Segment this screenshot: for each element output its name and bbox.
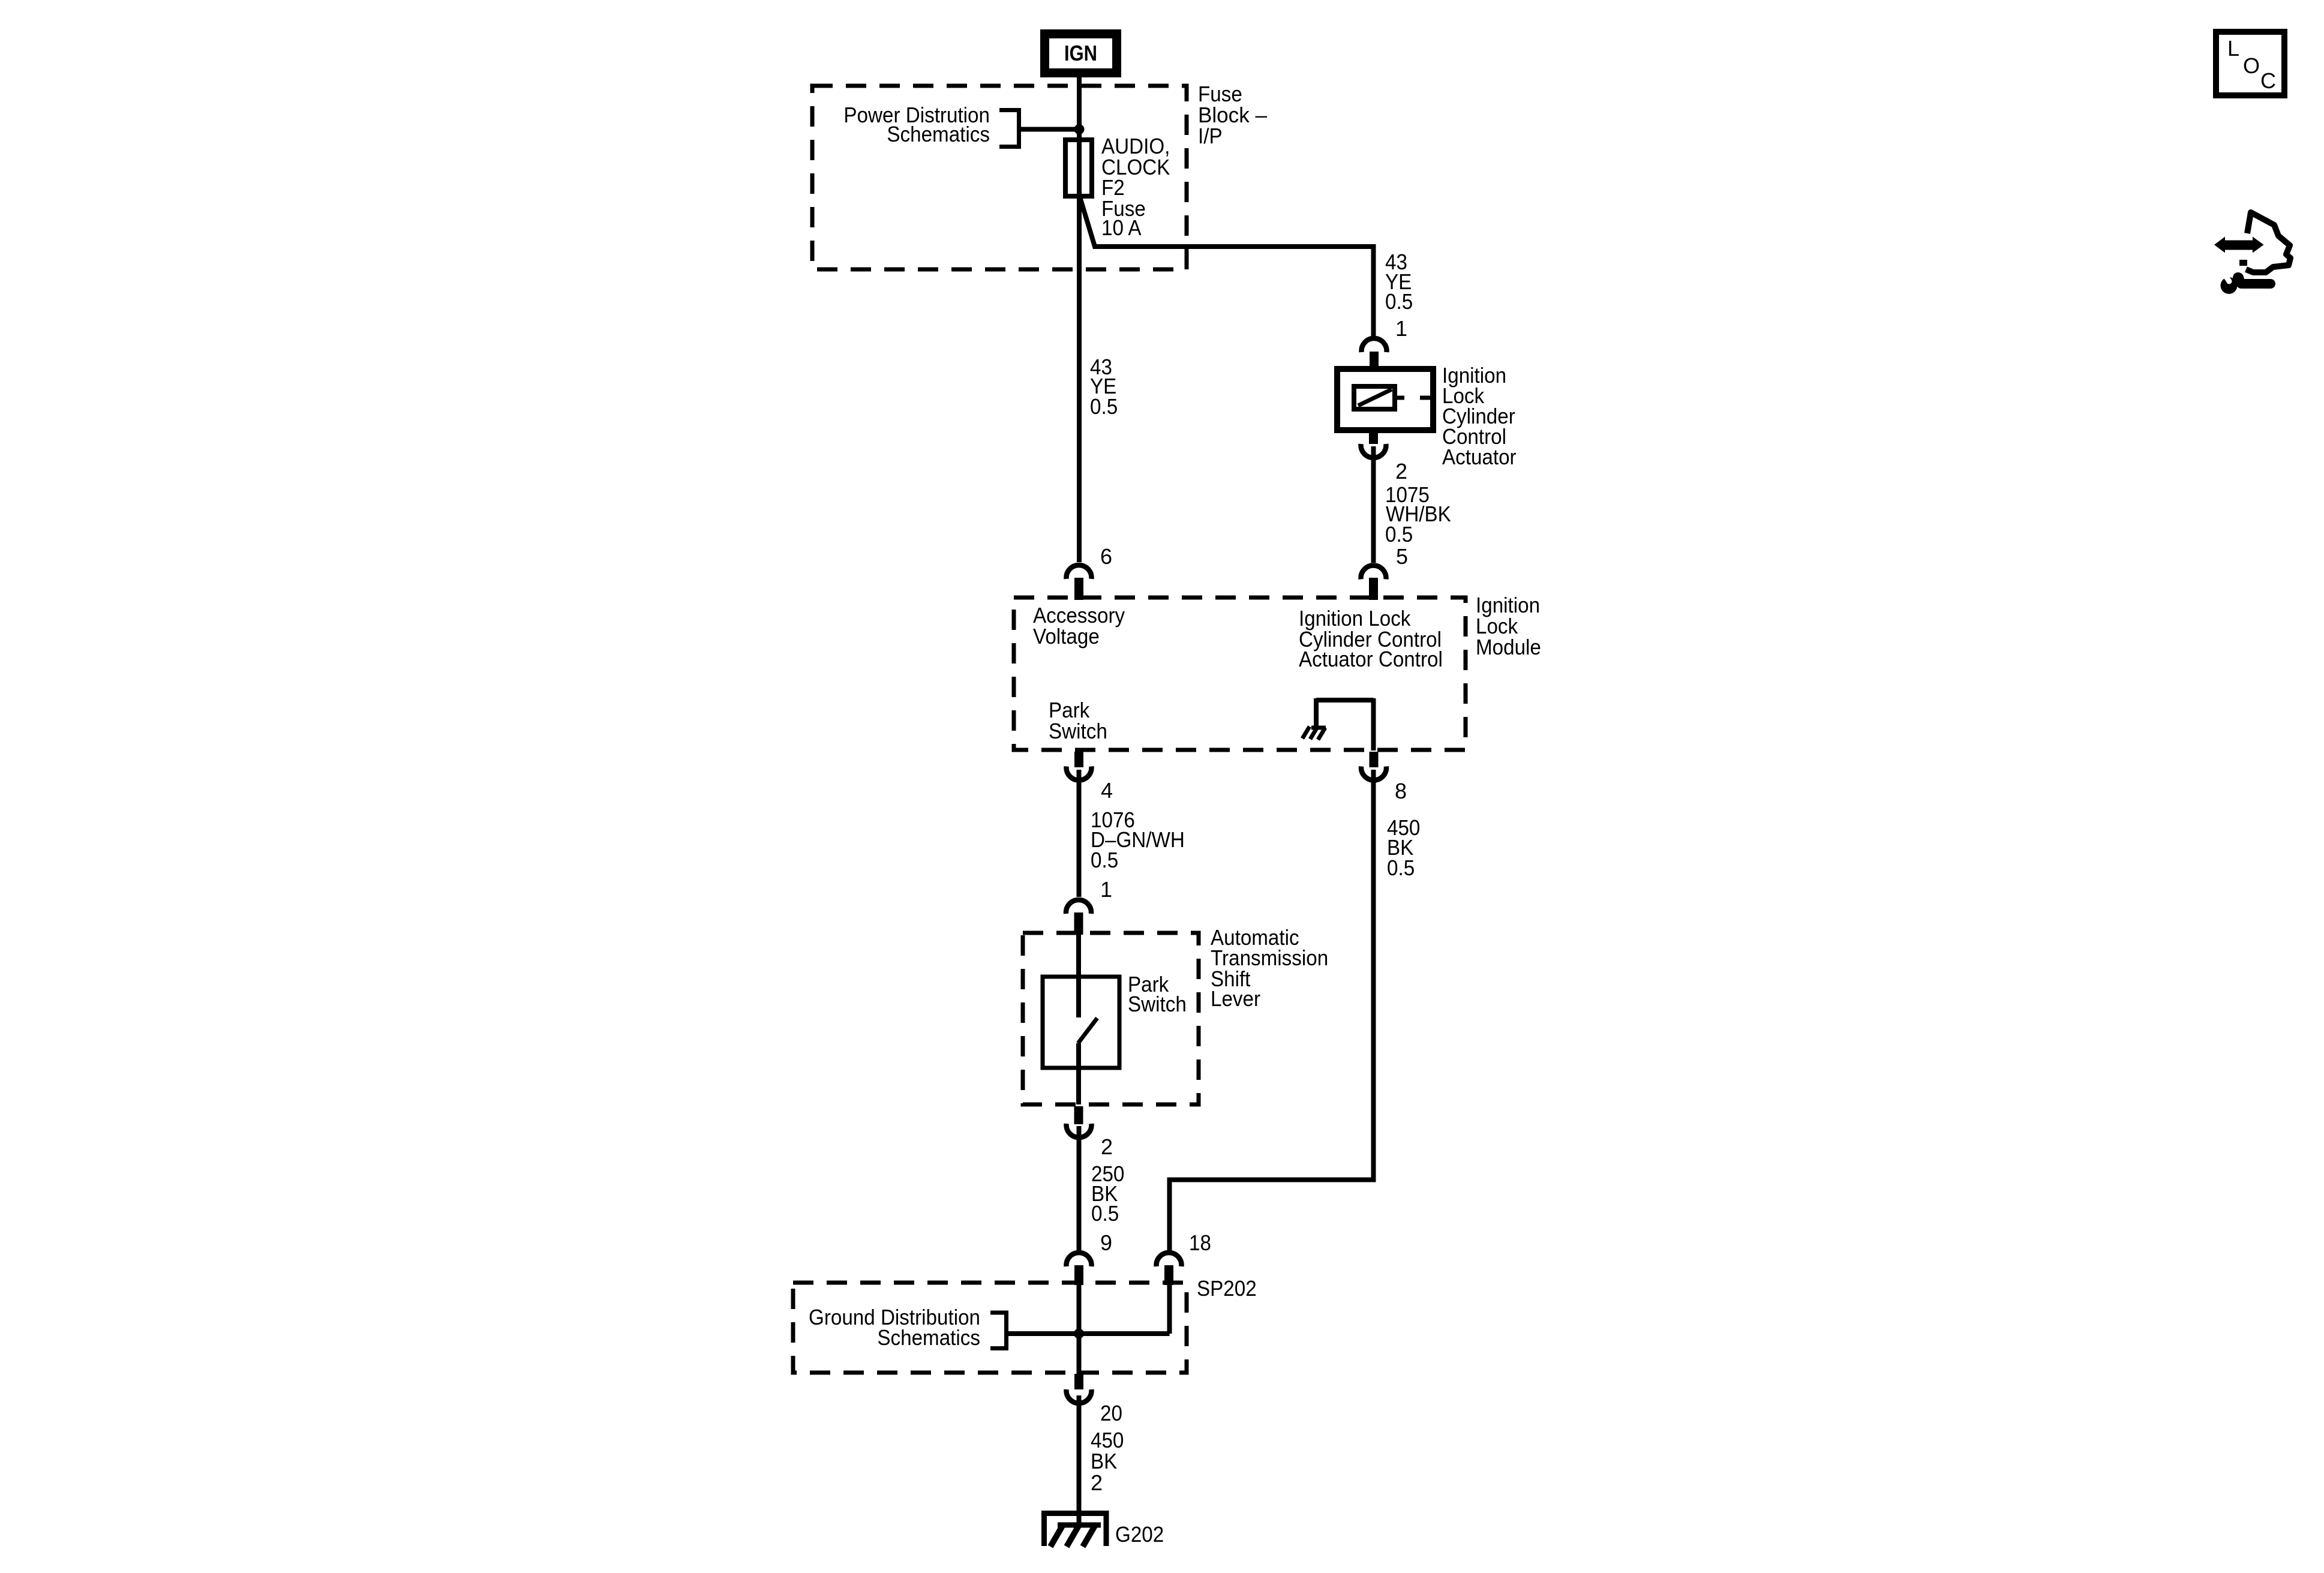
automatic transmission shift lever dashed box xyxy=(1023,933,1199,1104)
ground G202 xyxy=(1044,1514,1107,1547)
label 43 YE 0.5 left wire xyxy=(1090,355,1118,419)
actuator contact segments xyxy=(1395,396,1404,400)
module internal wire to ground xyxy=(1316,698,1374,703)
connector pin 1 xyxy=(1362,338,1387,352)
connector pin 8 xyxy=(1370,752,1379,767)
label AUDIO CLOCK F2 Fuse 10 A xyxy=(1101,134,1170,240)
bracket to Ground Distribution xyxy=(990,1313,1007,1349)
svg-text:0.5: 0.5 xyxy=(1090,394,1118,419)
connector pin 2 xyxy=(1369,428,1378,444)
svg-text:2: 2 xyxy=(1091,1470,1103,1495)
diagnostic icon: head outline xyxy=(2246,212,2290,272)
label 450 BK 0.5 xyxy=(1387,815,1420,880)
diagnostic icon: wrench xyxy=(2221,269,2271,294)
svg-text:8: 8 xyxy=(1395,779,1407,803)
connector pin 20 xyxy=(1074,1374,1083,1389)
label 450 BK 2 xyxy=(1091,1428,1124,1495)
wire IGN to fuse xyxy=(1077,76,1082,562)
label Power Distrution Schematics xyxy=(843,103,990,146)
svg-text:20: 20 xyxy=(1100,1401,1122,1425)
svg-text:Switch: Switch xyxy=(1049,719,1107,743)
svg-text:Schematics: Schematics xyxy=(887,122,990,146)
svg-text:18: 18 xyxy=(1189,1230,1211,1255)
wire pin 2 to pin 5 xyxy=(1371,446,1376,563)
connector pin 6 xyxy=(1067,565,1092,579)
svg-text:1: 1 xyxy=(1100,877,1112,902)
svg-text:5: 5 xyxy=(1396,544,1408,569)
label Fuse Block - I/P xyxy=(1198,82,1267,148)
svg-text:Actuator Control: Actuator Control xyxy=(1299,647,1443,671)
label 250 BK 0.5 xyxy=(1091,1161,1124,1226)
connector pin 9 xyxy=(1067,1253,1092,1266)
wire branch fuse to actuator pin 1 xyxy=(1079,195,1374,337)
connector ATSL pin 1 xyxy=(1066,900,1091,914)
park switch blade xyxy=(1078,1018,1097,1043)
park switch contact wires xyxy=(1076,935,1081,1017)
diagnostic icon: double arrow xyxy=(2214,237,2264,253)
svg-text:0.5: 0.5 xyxy=(1091,848,1118,872)
ground distribution dashed box xyxy=(793,1283,1187,1373)
label Ground Distribution Schematics xyxy=(809,1305,980,1350)
fuse block I/P dashed box xyxy=(812,86,1187,269)
svg-text:1: 1 xyxy=(1395,316,1407,341)
svg-text:4: 4 xyxy=(1101,778,1113,803)
svg-text:2: 2 xyxy=(1395,459,1407,484)
svg-text:2: 2 xyxy=(1101,1134,1113,1159)
connector ATSL pin 2 xyxy=(1074,1106,1083,1124)
svg-text:G202: G202 xyxy=(1115,1522,1164,1547)
svg-text:IGN: IGN xyxy=(1064,41,1097,65)
connector pin 5 xyxy=(1361,565,1386,579)
ignition lock module dashed box xyxy=(1014,598,1466,750)
label 1076 D-GN/WH 0.5 xyxy=(1091,807,1185,872)
label Accessory Voltage xyxy=(1033,603,1125,649)
svg-text:C: C xyxy=(2260,68,2276,93)
wire pin 4 to ATSL pin 1 xyxy=(1077,770,1082,897)
wire pin 20 to G202 xyxy=(1077,1395,1082,1525)
label Ignition Lock Cylinder Control Actuator xyxy=(1442,363,1517,469)
node junction at fuse input xyxy=(1074,124,1085,134)
svg-text:Switch: Switch xyxy=(1128,992,1187,1016)
svg-text:I/P: I/P xyxy=(1198,124,1223,148)
connector pin 4 xyxy=(1074,752,1083,767)
bracket to Power Distribution xyxy=(999,110,1019,147)
actuator U1 box xyxy=(1337,369,1433,430)
svg-text:Actuator: Actuator xyxy=(1442,445,1517,469)
wire ATSL pin 2 to pin 9 xyxy=(1077,1126,1082,1250)
label Ignition Lock Cylinder Control Actuator Control xyxy=(1299,606,1443,671)
svg-text:0.5: 0.5 xyxy=(1387,855,1415,880)
svg-text:0.5: 0.5 xyxy=(1385,289,1413,314)
svg-text:O: O xyxy=(2243,53,2260,78)
label 43 YE 0.5 right branch xyxy=(1385,250,1413,314)
node splice junction xyxy=(1074,1329,1084,1339)
fuse F2 10A xyxy=(1065,140,1092,196)
actuator coil element xyxy=(1354,386,1395,409)
wire bracket to junction xyxy=(1019,127,1080,132)
svg-text:SP202: SP202 xyxy=(1197,1276,1257,1301)
svg-text:L: L xyxy=(2227,36,2239,61)
svg-text:10 A: 10 A xyxy=(1101,215,1142,240)
label 1075 WH/BK 0.5 xyxy=(1385,482,1451,547)
label Park Switch (module) xyxy=(1049,698,1107,743)
label Park Switch (ATSL) xyxy=(1128,972,1187,1016)
svg-text:Voltage: Voltage xyxy=(1033,624,1100,649)
svg-text:0.5: 0.5 xyxy=(1385,522,1413,547)
svg-text:Lever: Lever xyxy=(1211,986,1260,1011)
svg-text:Module: Module xyxy=(1476,635,1541,659)
svg-text:Schematics: Schematics xyxy=(877,1325,980,1350)
chassis ground (module internal) xyxy=(1302,727,1326,740)
svg-text:6: 6 xyxy=(1100,544,1112,569)
svg-text:BK: BK xyxy=(1091,1449,1117,1473)
svg-text:9: 9 xyxy=(1100,1230,1112,1255)
label Automatic Transmission Shift Lever xyxy=(1211,925,1328,1011)
power symbol IGN xyxy=(1040,29,1121,77)
LOC reference box xyxy=(2216,32,2284,95)
splice SP202 wires xyxy=(1007,1331,1170,1336)
park switch S1 box xyxy=(1043,977,1119,1068)
wire 450 BK pin 8 to pin 18 xyxy=(1170,770,1374,1250)
connector pin 18 xyxy=(1157,1253,1182,1266)
svg-text:0.5: 0.5 xyxy=(1091,1201,1119,1226)
label Ignition Lock Module xyxy=(1476,593,1541,659)
